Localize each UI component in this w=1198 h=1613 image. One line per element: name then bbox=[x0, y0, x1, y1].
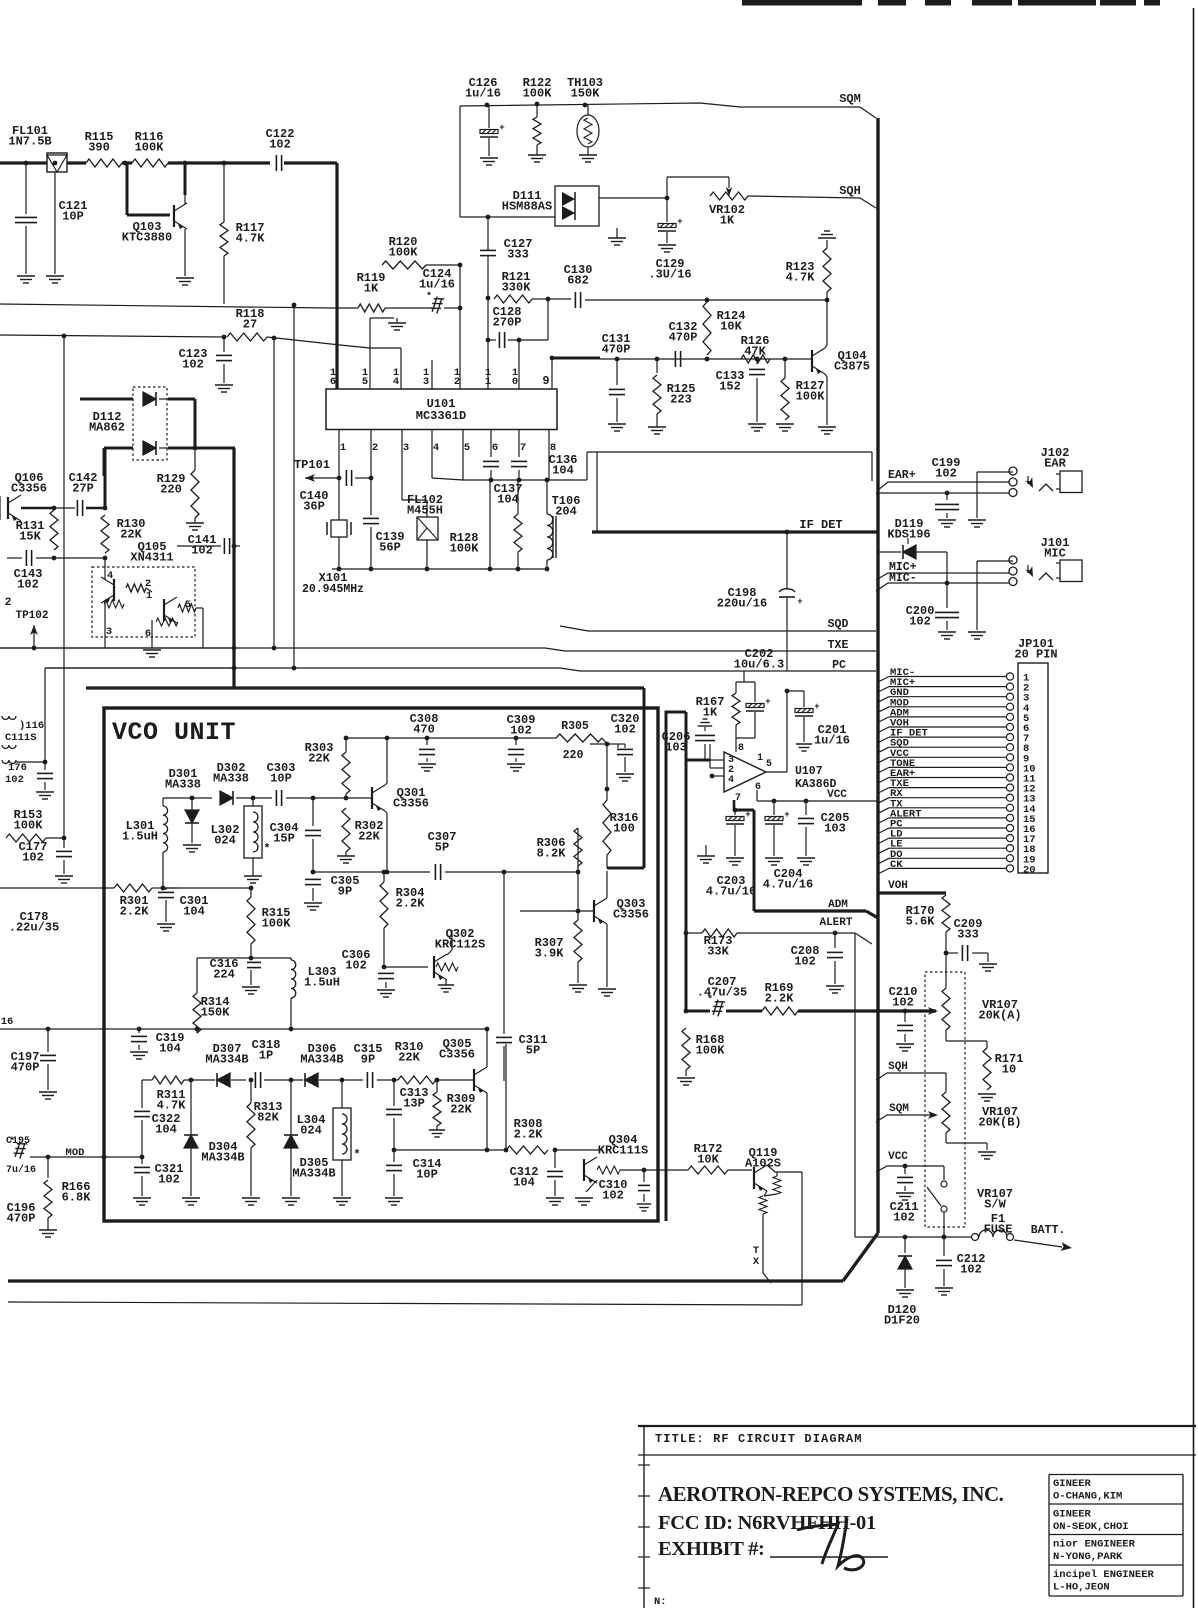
svg-text:EXHIBIT #:: EXHIBIT #: bbox=[658, 1538, 765, 1560]
svg-text:1u/16: 1u/16 bbox=[419, 278, 455, 292]
svg-text:4.7K: 4.7K bbox=[236, 232, 266, 246]
svg-text:102: 102 bbox=[191, 544, 213, 558]
svg-text:TITLE: RF CIRCUIT DIAGRAM: TITLE: RF CIRCUIT DIAGRAM bbox=[655, 1432, 863, 1446]
svg-text:102: 102 bbox=[960, 1263, 982, 1277]
svg-text:4: 4 bbox=[728, 775, 734, 786]
svg-text:10u/6.3: 10u/6.3 bbox=[734, 658, 784, 672]
svg-text:100K: 100K bbox=[262, 917, 292, 931]
svg-text:102: 102 bbox=[158, 1173, 180, 1187]
svg-text:VCC: VCC bbox=[827, 789, 847, 801]
svg-text:O-CHANG,KIM: O-CHANG,KIM bbox=[1053, 1491, 1122, 1503]
svg-text:100K: 100K bbox=[523, 87, 553, 101]
svg-text:20 PIN: 20 PIN bbox=[1014, 648, 1057, 662]
svg-text:47K: 47K bbox=[744, 345, 766, 359]
svg-text:10P: 10P bbox=[270, 772, 292, 786]
svg-text:+: + bbox=[765, 697, 770, 707]
svg-text:104: 104 bbox=[552, 464, 574, 478]
svg-text:3: 3 bbox=[423, 376, 429, 388]
svg-text:FCC ID: N6RVHFHH-01: FCC ID: N6RVHFHH-01 bbox=[658, 1512, 876, 1534]
svg-text:HSM88AS: HSM88AS bbox=[502, 200, 552, 214]
svg-text:C3356: C3356 bbox=[439, 1048, 475, 1062]
svg-text:102: 102 bbox=[5, 774, 24, 786]
svg-text:6: 6 bbox=[492, 442, 498, 454]
svg-text:VCC: VCC bbox=[888, 1151, 908, 1163]
svg-text:5: 5 bbox=[766, 759, 772, 770]
svg-text:PC: PC bbox=[832, 659, 846, 672]
svg-text:33K: 33K bbox=[707, 945, 729, 959]
svg-text:1.5uH: 1.5uH bbox=[304, 976, 340, 990]
svg-text:6.8K: 6.8K bbox=[62, 1191, 92, 1205]
svg-text:KTC3880: KTC3880 bbox=[122, 231, 172, 245]
svg-text:4: 4 bbox=[433, 442, 439, 454]
svg-text:102: 102 bbox=[17, 578, 39, 592]
svg-text:*: * bbox=[426, 291, 432, 303]
svg-text:390: 390 bbox=[88, 141, 110, 155]
svg-text:VOH: VOH bbox=[888, 880, 908, 892]
svg-text:470P: 470P bbox=[602, 343, 631, 357]
svg-text:KRC111S: KRC111S bbox=[598, 1144, 648, 1158]
svg-text:103: 103 bbox=[665, 741, 687, 755]
svg-text:C3356: C3356 bbox=[11, 482, 47, 496]
svg-text:2.2K: 2.2K bbox=[120, 905, 150, 919]
svg-text:)116: )116 bbox=[19, 720, 44, 732]
svg-text:100K: 100K bbox=[389, 246, 419, 260]
svg-text:C111S: C111S bbox=[5, 732, 37, 744]
svg-text:S/W: S/W bbox=[984, 1198, 1006, 1212]
svg-text:MA334B: MA334B bbox=[300, 1053, 343, 1067]
svg-text:100K: 100K bbox=[14, 819, 44, 833]
svg-text:MA862: MA862 bbox=[89, 421, 125, 435]
svg-text:KRC112S: KRC112S bbox=[435, 938, 485, 952]
svg-text:4.7K: 4.7K bbox=[786, 271, 816, 285]
svg-text:N:: N: bbox=[654, 1596, 667, 1608]
svg-text:FUSE: FUSE bbox=[984, 1223, 1013, 1237]
svg-text:+: + bbox=[499, 123, 504, 133]
svg-text:220: 220 bbox=[160, 483, 182, 497]
svg-text:10P: 10P bbox=[62, 210, 84, 224]
svg-text:4: 4 bbox=[393, 376, 399, 388]
svg-text:+: + bbox=[677, 217, 682, 227]
svg-text:4: 4 bbox=[107, 570, 113, 582]
svg-text:102: 102 bbox=[794, 955, 816, 969]
svg-text:102: 102 bbox=[909, 615, 931, 629]
svg-text:MA338: MA338 bbox=[165, 778, 201, 792]
svg-text:150K: 150K bbox=[201, 1006, 231, 1020]
svg-text:102: 102 bbox=[614, 723, 636, 737]
svg-text:1P: 1P bbox=[259, 1049, 273, 1063]
svg-text:6: 6 bbox=[330, 376, 336, 388]
svg-text:22K: 22K bbox=[450, 1103, 472, 1117]
svg-text:.3U/16: .3U/16 bbox=[648, 268, 691, 282]
svg-text:102: 102 bbox=[892, 996, 914, 1010]
svg-text:10K: 10K bbox=[720, 320, 742, 334]
svg-text:102: 102 bbox=[269, 138, 291, 152]
svg-text:682: 682 bbox=[567, 274, 589, 288]
svg-text:SQH: SQH bbox=[888, 1061, 908, 1073]
svg-text:XN4311: XN4311 bbox=[130, 551, 173, 565]
svg-text:102: 102 bbox=[182, 358, 204, 372]
svg-text:1K: 1K bbox=[720, 214, 735, 228]
svg-text:9P: 9P bbox=[361, 1053, 375, 1067]
svg-text:470P: 470P bbox=[11, 1061, 40, 1075]
svg-text:CK: CK bbox=[890, 859, 903, 871]
svg-text:C3356: C3356 bbox=[613, 908, 649, 922]
svg-text:N-YONG,PARK: N-YONG,PARK bbox=[1053, 1551, 1123, 1563]
svg-text:470P: 470P bbox=[669, 331, 698, 345]
svg-text:22K: 22K bbox=[358, 830, 380, 844]
svg-text:104: 104 bbox=[513, 1176, 535, 1190]
svg-text:102: 102 bbox=[22, 851, 44, 865]
svg-text:MA334B: MA334B bbox=[201, 1151, 244, 1165]
svg-text:104: 104 bbox=[155, 1123, 177, 1137]
svg-text:5P: 5P bbox=[526, 1044, 540, 1058]
svg-text:1N7.5B: 1N7.5B bbox=[8, 135, 51, 149]
svg-text:C3356: C3356 bbox=[393, 797, 429, 811]
svg-text:27: 27 bbox=[243, 318, 257, 332]
svg-text:102: 102 bbox=[893, 1211, 915, 1225]
svg-text:U107: U107 bbox=[795, 765, 823, 778]
svg-text:8.2K: 8.2K bbox=[537, 847, 567, 861]
svg-text:TP102: TP102 bbox=[15, 610, 48, 622]
svg-text:C3875: C3875 bbox=[834, 360, 870, 374]
svg-text:SQM: SQM bbox=[839, 92, 861, 106]
svg-text:56P: 56P bbox=[379, 541, 401, 555]
svg-text:2.2K: 2.2K bbox=[514, 1128, 544, 1142]
svg-text:333: 333 bbox=[957, 928, 979, 942]
svg-text:7: 7 bbox=[520, 442, 526, 454]
svg-text:EAR+: EAR+ bbox=[888, 469, 916, 482]
svg-text:3: 3 bbox=[403, 442, 409, 454]
svg-text:104: 104 bbox=[497, 493, 519, 507]
svg-text:102: 102 bbox=[345, 959, 367, 973]
svg-text:MA334B: MA334B bbox=[205, 1053, 248, 1067]
svg-text:4.7u/16: 4.7u/16 bbox=[763, 878, 813, 892]
svg-text:TP101: TP101 bbox=[294, 458, 330, 472]
svg-text:SQM: SQM bbox=[889, 1103, 909, 1115]
svg-text:16: 16 bbox=[1, 1016, 14, 1028]
svg-text:223: 223 bbox=[670, 393, 692, 407]
svg-text:1.5uH: 1.5uH bbox=[122, 830, 158, 844]
svg-text:103: 103 bbox=[824, 822, 846, 836]
svg-text:R305: R305 bbox=[561, 720, 589, 733]
svg-text:C195: C195 bbox=[6, 1136, 30, 1147]
svg-text:GINEER: GINEER bbox=[1053, 1478, 1092, 1490]
svg-text:5: 5 bbox=[464, 442, 470, 454]
svg-text:ON-SEOK,CHOI: ON-SEOK,CHOI bbox=[1053, 1521, 1129, 1533]
svg-text:AEROTRON-REPCO SYSTEMS, INC.: AEROTRON-REPCO SYSTEMS, INC. bbox=[658, 1482, 1004, 1506]
svg-text:2.2K: 2.2K bbox=[765, 992, 795, 1006]
svg-text:330K: 330K bbox=[502, 281, 532, 295]
svg-text:2.2K: 2.2K bbox=[396, 897, 426, 911]
svg-text:.47u/35: .47u/35 bbox=[697, 986, 747, 1000]
svg-text:100K: 100K bbox=[696, 1044, 726, 1058]
svg-text:KDS196: KDS196 bbox=[887, 528, 930, 542]
svg-text:*: * bbox=[707, 994, 713, 1006]
svg-text:224: 224 bbox=[213, 968, 235, 982]
svg-text:470: 470 bbox=[413, 723, 435, 737]
svg-text:1: 1 bbox=[485, 376, 491, 388]
svg-text:6: 6 bbox=[755, 782, 761, 793]
svg-text:1: 1 bbox=[340, 442, 346, 454]
svg-text:1K: 1K bbox=[703, 706, 718, 720]
svg-text:D1F20: D1F20 bbox=[884, 1314, 920, 1328]
svg-text:20K(B): 20K(B) bbox=[978, 1116, 1021, 1130]
svg-text:GINEER: GINEER bbox=[1053, 1508, 1092, 1520]
svg-text:L-HO,JEON: L-HO,JEON bbox=[1053, 1581, 1110, 1593]
svg-text:100K: 100K bbox=[450, 542, 480, 556]
svg-text:*: * bbox=[353, 1148, 360, 1162]
svg-text:0: 0 bbox=[512, 376, 518, 388]
svg-text:5: 5 bbox=[362, 376, 368, 388]
svg-text:102: 102 bbox=[510, 724, 532, 738]
svg-text:1u/16: 1u/16 bbox=[814, 734, 850, 748]
svg-text:024: 024 bbox=[300, 1124, 322, 1138]
svg-text:10: 10 bbox=[1002, 1063, 1016, 1077]
svg-text:incipel ENGINEER: incipel ENGINEER bbox=[1053, 1569, 1155, 1581]
svg-text:M455H: M455H bbox=[407, 504, 443, 518]
svg-text:104: 104 bbox=[159, 1042, 181, 1056]
svg-text:IF DET: IF DET bbox=[799, 518, 842, 532]
svg-text:MA338: MA338 bbox=[213, 772, 249, 786]
svg-text:+: + bbox=[797, 597, 802, 607]
svg-text:EAR: EAR bbox=[1044, 457, 1066, 471]
svg-text:104: 104 bbox=[183, 905, 205, 919]
svg-text:100: 100 bbox=[613, 822, 635, 836]
svg-text:5P: 5P bbox=[435, 841, 449, 855]
svg-text:15P: 15P bbox=[273, 832, 295, 846]
svg-text:3.9K: 3.9K bbox=[535, 947, 565, 961]
svg-text:333: 333 bbox=[507, 248, 529, 262]
svg-text:13P: 13P bbox=[403, 1097, 425, 1111]
svg-text:MC3361D: MC3361D bbox=[416, 409, 466, 423]
svg-text:2: 2 bbox=[454, 376, 460, 388]
svg-text:150K: 150K bbox=[571, 87, 601, 101]
svg-text:20.945MHz: 20.945MHz bbox=[302, 583, 364, 596]
svg-text:X: X bbox=[753, 1256, 760, 1268]
svg-text:SQH: SQH bbox=[839, 184, 861, 198]
svg-text:A102S: A102S bbox=[745, 1157, 781, 1171]
svg-text:22K: 22K bbox=[398, 1051, 420, 1065]
svg-text:.22u/35: .22u/35 bbox=[9, 921, 59, 935]
svg-text:2: 2 bbox=[372, 442, 378, 454]
svg-text:220: 220 bbox=[563, 749, 584, 762]
svg-text:+: + bbox=[745, 810, 750, 820]
svg-text:9: 9 bbox=[542, 374, 549, 388]
svg-text:10K: 10K bbox=[697, 1153, 719, 1167]
svg-text:27P: 27P bbox=[72, 482, 94, 496]
svg-text:4.7u/16: 4.7u/16 bbox=[706, 885, 756, 899]
svg-text:1: 1 bbox=[757, 753, 763, 764]
svg-text:nior ENGINEER: nior ENGINEER bbox=[1053, 1539, 1136, 1551]
svg-text:VCO UNIT: VCO UNIT bbox=[112, 718, 236, 747]
svg-text:152: 152 bbox=[719, 380, 741, 394]
svg-text:100K: 100K bbox=[135, 141, 165, 155]
svg-text:MIC: MIC bbox=[1044, 547, 1066, 561]
svg-text:270P: 270P bbox=[493, 316, 522, 330]
svg-text:204: 204 bbox=[555, 505, 577, 519]
svg-text:ADM: ADM bbox=[828, 899, 848, 911]
svg-text:ALERT: ALERT bbox=[819, 917, 852, 929]
svg-text:15K: 15K bbox=[19, 530, 41, 544]
svg-text:10P: 10P bbox=[416, 1168, 438, 1182]
svg-text:BATT.: BATT. bbox=[1031, 1224, 1066, 1237]
svg-text:102: 102 bbox=[935, 467, 957, 481]
svg-text:82K: 82K bbox=[257, 1111, 279, 1125]
svg-text:4.7K: 4.7K bbox=[157, 1099, 187, 1113]
svg-text:+: + bbox=[814, 702, 819, 712]
svg-text:1K: 1K bbox=[364, 282, 379, 296]
svg-text:TXE: TXE bbox=[828, 639, 849, 652]
svg-text:220u/16: 220u/16 bbox=[717, 597, 767, 611]
svg-text:8: 8 bbox=[738, 743, 744, 754]
svg-text:102: 102 bbox=[602, 1189, 624, 1203]
svg-text:470P: 470P bbox=[7, 1212, 36, 1226]
svg-text:*: * bbox=[263, 842, 270, 856]
svg-text:9P: 9P bbox=[338, 885, 352, 899]
svg-text:+: + bbox=[784, 810, 789, 820]
svg-text:5.6K: 5.6K bbox=[906, 915, 936, 929]
svg-text:7u/16: 7u/16 bbox=[6, 1164, 36, 1176]
svg-text:2: 2 bbox=[5, 597, 12, 609]
svg-text:36P: 36P bbox=[303, 500, 325, 514]
svg-text:1u/16: 1u/16 bbox=[465, 87, 501, 101]
svg-text:SQD: SQD bbox=[828, 618, 849, 631]
svg-text:20: 20 bbox=[1023, 864, 1036, 876]
svg-text:20K(A): 20K(A) bbox=[978, 1009, 1021, 1023]
svg-text:6: 6 bbox=[145, 628, 151, 640]
svg-text:024: 024 bbox=[214, 834, 236, 848]
svg-text:MA334B: MA334B bbox=[292, 1167, 335, 1181]
svg-text:100K: 100K bbox=[796, 390, 826, 404]
svg-text:7: 7 bbox=[735, 793, 741, 804]
svg-text:3: 3 bbox=[106, 626, 112, 638]
svg-text:22K: 22K bbox=[308, 752, 330, 766]
